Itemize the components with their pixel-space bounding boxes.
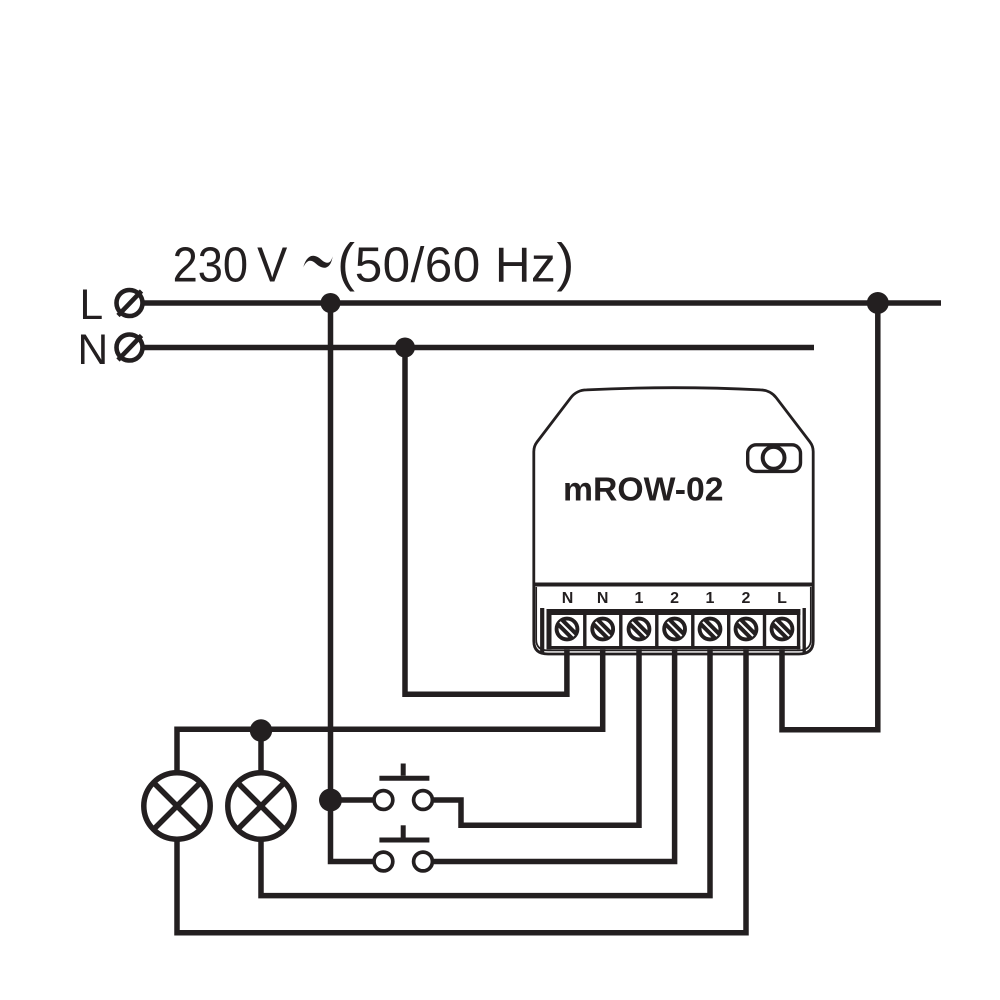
svg-text:2: 2 xyxy=(742,590,751,607)
svg-text:L: L xyxy=(80,282,104,329)
svg-text:50/60 Hz: 50/60 Hz xyxy=(355,238,556,293)
svg-text:1: 1 xyxy=(635,590,644,607)
svg-text:2: 2 xyxy=(670,590,679,607)
svg-text:N: N xyxy=(597,590,609,607)
svg-text:(: ( xyxy=(337,234,355,293)
svg-text:): ) xyxy=(557,234,575,293)
svg-text:230 V: 230 V xyxy=(173,238,288,293)
svg-text:mROW-02: mROW-02 xyxy=(563,472,724,509)
svg-text:1: 1 xyxy=(706,590,715,607)
svg-text:L: L xyxy=(777,590,787,607)
svg-text:N: N xyxy=(562,590,574,607)
svg-text:N: N xyxy=(78,327,109,374)
